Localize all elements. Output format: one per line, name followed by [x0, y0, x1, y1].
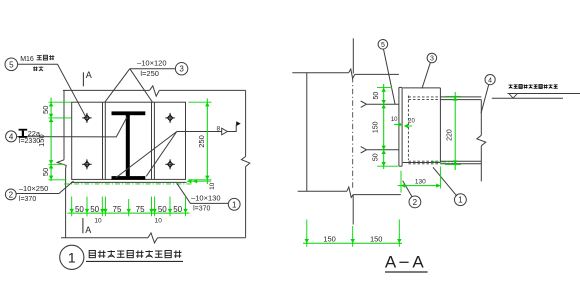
svg-text:250: 250	[197, 135, 206, 148]
svg-text:–10×130: –10×130	[191, 193, 220, 202]
svg-text:50: 50	[90, 205, 99, 214]
svg-text:1: 1	[68, 249, 76, 265]
svg-text:50: 50	[173, 205, 182, 214]
svg-text:l=250: l=250	[140, 69, 159, 78]
svg-text:4: 4	[488, 77, 492, 84]
svg-text:l=370: l=370	[19, 196, 36, 203]
svg-text:75: 75	[113, 205, 122, 214]
svg-text:A: A	[385, 253, 397, 272]
svg-text:10: 10	[155, 218, 163, 225]
svg-text:M16: M16	[20, 56, 34, 63]
svg-text:50: 50	[41, 106, 50, 114]
svg-text:150: 150	[323, 234, 336, 243]
svg-text:50: 50	[158, 205, 167, 214]
svg-text:20: 20	[408, 119, 415, 125]
svg-text:50: 50	[41, 168, 50, 176]
svg-text:150: 150	[370, 234, 383, 243]
svg-text:2: 2	[413, 198, 418, 207]
svg-text:10: 10	[94, 218, 102, 225]
svg-text:l=370: l=370	[193, 205, 210, 212]
svg-text:220: 220	[447, 129, 454, 141]
svg-text:A: A	[85, 225, 91, 235]
svg-text:50: 50	[75, 205, 84, 214]
svg-text:1: 1	[232, 200, 237, 209]
svg-text:50: 50	[373, 153, 380, 161]
svg-text:3: 3	[430, 56, 434, 63]
svg-text:75: 75	[136, 205, 145, 214]
svg-text:8: 8	[217, 126, 221, 133]
svg-text:–10×120: –10×120	[137, 59, 166, 68]
svg-text:1: 1	[458, 196, 463, 205]
svg-text:50: 50	[373, 92, 380, 100]
svg-text:5: 5	[9, 60, 14, 69]
svg-text:–10×250: –10×250	[19, 184, 48, 193]
svg-text:10: 10	[209, 182, 216, 190]
svg-text:3: 3	[179, 65, 184, 74]
svg-text:10: 10	[391, 117, 398, 123]
svg-text:150: 150	[37, 134, 46, 147]
svg-text:4: 4	[9, 132, 14, 141]
svg-text:A: A	[412, 253, 424, 272]
svg-text:130: 130	[415, 179, 426, 186]
svg-text:A: A	[86, 70, 92, 80]
svg-text:2: 2	[9, 190, 14, 199]
svg-text:5: 5	[381, 42, 385, 49]
svg-text:150: 150	[373, 121, 380, 133]
